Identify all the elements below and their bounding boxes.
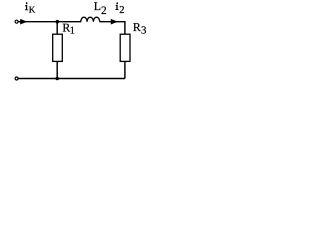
label L2 [94, 0, 107, 17]
wire: resistor R3 down to bottom corner [124, 61, 126, 78]
svg-text:K: K [29, 5, 36, 15]
label R1 [62, 21, 74, 37]
svg-text:2: 2 [119, 5, 124, 16]
label iK [25, 2, 36, 14]
node B junction dot (bottom) [55, 77, 59, 81]
wire top-right: inductor L2 to corner, down to resistor R3 [100, 22, 125, 35]
wire: resistor R1 down to node B [56, 61, 58, 78]
svg-text:3: 3 [141, 25, 146, 37]
svg-text:2: 2 [101, 5, 107, 17]
inductor L2 coil [81, 17, 100, 22]
svg-text:R: R [133, 20, 141, 34]
svg-text:1: 1 [70, 26, 75, 37]
node A junction dot (top) [56, 20, 60, 24]
wire top-left: terminal K to inductor L2 [18, 21, 81, 23]
svg-text:L: L [94, 0, 101, 13]
terminal top-left [15, 20, 18, 23]
label i2 [115, 2, 124, 16]
current arrow i2 [111, 19, 118, 25]
wire: node A down to resistor R1 [56, 22, 58, 35]
resistor R1 [53, 34, 63, 61]
resistor R3 [120, 34, 130, 61]
wire bottom: corner to terminal [18, 78, 125, 80]
terminal bottom-left [15, 77, 18, 80]
current arrow iK [20, 19, 27, 25]
label R3 [133, 20, 147, 37]
